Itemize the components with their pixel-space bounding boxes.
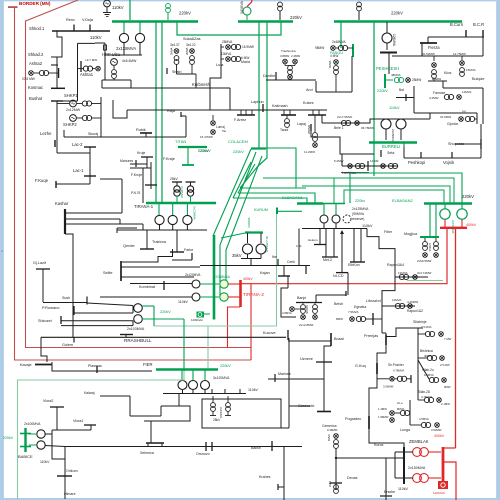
wire green x184 to FIER — [183, 319, 185, 371]
svg-text:2MVA: 2MVA — [170, 47, 174, 55]
svg-text:Vlora1: Vlora1 — [73, 419, 83, 423]
svg-text:Sh.Poshter: Sh.Poshter — [388, 363, 405, 367]
svg-text:35kV: 35kV — [232, 253, 242, 258]
svg-text:Kukes: Kukes — [303, 101, 314, 105]
transformer 2x128MVA a — [123, 22, 125, 33]
svg-text:0.84: 0.84 — [296, 244, 302, 248]
node Traktora — [176, 230, 178, 252]
svg-text:Kucove: Kucove — [263, 331, 276, 335]
svg-text:Himare: Himare — [64, 492, 76, 496]
svg-text:220kV: 220kV — [160, 310, 171, 314]
svg-text:110kV: 110kV — [40, 460, 50, 464]
wire SHKP east — [100, 97, 102, 137]
svg-text:Selenica: Selenica — [140, 451, 154, 455]
wire Mogjica drops — [429, 204, 431, 236]
bus TIRANA-2 end — [213, 318, 216, 320]
wire peshkopi west end — [403, 147, 405, 158]
svg-text:3x120MVA: 3x120MVA — [213, 376, 230, 380]
wire Kruje area — [146, 157, 148, 168]
wire 220kV feeder x341 to FANGU — [340, 22, 342, 48]
wire Erseke spine — [385, 458, 387, 500]
svg-text:2x128MVA: 2x128MVA — [116, 46, 136, 51]
svg-text:Manures: Manures — [120, 159, 133, 163]
wire 400kV Tirana2-Elbasan2 — [241, 228, 447, 284]
node Krahes — [277, 484, 279, 490]
svg-text:1.4MW: 1.4MW — [378, 407, 387, 411]
wire Burrel 110 line — [376, 118, 430, 120]
node Denas — [330, 482, 342, 484]
svg-text:Kombinat: Kombinat — [139, 285, 156, 289]
svg-text:2x12MW: 2x12MW — [66, 108, 81, 112]
svg-text:F: F — [2, 249, 4, 253]
svg-text:TITAN: TITAN — [175, 139, 186, 144]
wire babice ticks — [20, 433, 31, 435]
svg-text:110kV: 110kV — [248, 388, 259, 392]
svg-text:Krahes: Krahes — [259, 475, 271, 479]
node ElbKon — [353, 229, 355, 262]
wire 220kV fan-to-east 1 — [240, 166, 258, 188]
wire 35kV join — [241, 258, 261, 260]
svg-text:Orikum: Orikum — [66, 469, 78, 473]
svg-text:F.Kraje: F.Kraje — [163, 157, 175, 161]
bus ELBASAN1 — [297, 202, 323, 205]
wire Bele-Burrel jog — [366, 119, 376, 123]
wire red link tap west — [228, 307, 241, 348]
wire cemerica spine — [335, 448, 337, 490]
svg-text:2x100MVA: 2x100MVA — [24, 422, 41, 426]
transformer E2 400 b — [461, 204, 463, 209]
wire zemblak south exit — [443, 462, 456, 500]
node B.C.R — [482, 30, 484, 37]
wire seafoam to FIER — [207, 326, 209, 368]
wire green drop x130 — [129, 0, 131, 20]
node Met.2 — [325, 229, 327, 257]
svg-text:28MW: 28MW — [412, 78, 421, 82]
svg-text:20.5 MW: 20.5 MW — [22, 77, 35, 81]
wire balish-krahes — [275, 446, 302, 448]
svg-text:2x17.5MVA: 2x17.5MVA — [337, 115, 352, 119]
bus Shkod.1 — [52, 30, 110, 32]
svg-text:Denas: Denas — [347, 476, 358, 480]
wire fan-to-y198 — [233, 162, 251, 198]
plant Fier TPP box — [202, 399, 281, 428]
bus ZEMBLAK 400kV — [442, 447, 445, 484]
svg-text:Klos: Klos — [444, 71, 451, 75]
svg-text:110kV: 110kV — [112, 5, 124, 10]
bus Mogjica — [420, 236, 439, 238]
svg-text:Shkad.2: Shkad.2 — [28, 52, 44, 57]
node V.Deja — [89, 25, 91, 32]
svg-text:2x128MVA: 2x128MVA — [193, 206, 197, 220]
page frame left blue strip — [0, 0, 3, 500]
wire Fiber line — [367, 229, 395, 307]
svg-text:Vlora2: Vlora2 — [43, 399, 53, 403]
svg-text:Bushat: Bushat — [29, 96, 43, 101]
transformer E1 b — [335, 204, 337, 215]
transformer RRASHBULL a — [134, 304, 143, 313]
bus Pogradec — [368, 416, 370, 429]
svg-text:7.5MVA: 7.5MVA — [348, 310, 358, 314]
svg-text:Shkod.1: Shkod.1 — [29, 26, 45, 31]
svg-text:16.9MW: 16.9MW — [242, 45, 254, 49]
svg-text:Kajan: Kajan — [260, 271, 270, 275]
svg-text:3.8MW: 3.8MW — [280, 54, 289, 58]
generator Burrel b — [396, 119, 406, 129]
svg-text:220kV: 220kV — [179, 11, 191, 16]
wire fan-to-y193 — [238, 164, 255, 193]
bus Bosat — [330, 333, 332, 346]
node NI-CD — [341, 234, 343, 273]
wire Vlora2 — [56, 407, 58, 430]
wire Kashar feeders — [65, 212, 122, 214]
svg-text:Rubik: Rubik — [136, 128, 146, 132]
page frame bottom edge — [0, 498, 500, 500]
node Vojnik — [451, 152, 453, 158]
svg-text:Egnatia: Egnatia — [354, 305, 366, 309]
node Peshkopi — [420, 152, 422, 158]
node Raja — [180, 112, 182, 117]
transformer E1 a — [323, 204, 325, 215]
svg-text:Plasmas: Plasmas — [88, 364, 102, 368]
svg-text:Sllab-2D: Sllab-2D — [418, 390, 431, 394]
svg-text:SHKP1: SHKP1 — [64, 93, 78, 98]
node Kucove — [287, 330, 289, 340]
wire Kukes east — [321, 115, 323, 123]
svg-text:F.Kuqe: F.Kuqe — [35, 178, 49, 183]
svg-text:Laphun: Laphun — [251, 100, 264, 104]
svg-text:Bosat: Bosat — [334, 337, 345, 341]
svg-text:(90MVA: (90MVA — [352, 212, 365, 216]
svg-text:Sllab-2u: Sllab-2u — [422, 368, 434, 372]
wire Burrel-Bulqize — [413, 86, 415, 113]
node G.Kuq — [376, 363, 378, 374]
svg-text:340MVA: 340MVA — [240, 1, 244, 14]
svg-text:2x24MVA: 2x24MVA — [219, 407, 223, 418]
svg-text:4.8MVA: 4.8MVA — [282, 311, 292, 315]
wire Marinez lines — [268, 378, 324, 380]
plant Lumaj — [212, 115, 214, 120]
svg-text:Mogjica: Mogjica — [404, 232, 418, 236]
wire Kurbnesh-Kalimash line — [127, 109, 327, 111]
bus FIER — [156, 368, 218, 370]
svg-text:110kV: 110kV — [362, 224, 373, 228]
wire zemblak west stubs — [395, 451, 404, 453]
bus Fierza — [427, 37, 429, 43]
svg-text:Bat: Bat — [399, 88, 404, 92]
wire border red diagonal + vertical 2 — [26, 0, 252, 348]
wire burrel tap — [403, 143, 405, 147]
svg-text:Lezhe: Lezhe — [40, 131, 52, 136]
wire hpp link — [104, 55, 106, 80]
svg-text:3.06MW: 3.06MW — [383, 385, 394, 389]
generator 340MVA synchronous condenser — [243, 7, 251, 15]
wire Selite-Ibe line — [200, 265, 310, 267]
wire zemblak top link — [443, 447, 456, 449]
svg-text:98MW: 98MW — [315, 46, 324, 50]
svg-text:P.Romano: P.Romano — [42, 306, 59, 310]
wire 220kV fan line 2 — [220, 152, 256, 297]
svg-text:Kashar: Kashar — [55, 201, 69, 206]
svg-text:Balish: Balish — [251, 446, 261, 450]
svg-text:Gjorice: Gjorice — [447, 122, 458, 126]
plant Lapaj tx — [313, 133, 318, 138]
svg-text:Vojnik: Vojnik — [443, 160, 455, 165]
svg-text:p-p: p-p — [462, 109, 466, 113]
bus TIRANA-1 — [146, 202, 216, 204]
wire traktora south — [122, 249, 173, 262]
wire 220kV tie y35 — [177, 22, 281, 35]
svg-text:Tarzd: Tarzd — [280, 128, 288, 132]
bus Kashar — [64, 209, 66, 234]
wire to Ami — [315, 81, 317, 92]
svg-text:Ashta2: Ashta2 — [29, 61, 43, 66]
svg-text:9MW: 9MW — [444, 385, 451, 389]
svg-text:7 MW: 7 MW — [444, 337, 452, 341]
wire B.Curri line — [428, 36, 484, 38]
svg-text:Famose: Famose — [433, 91, 445, 95]
svg-text:Farke: Farke — [184, 248, 193, 252]
wire 400kV to Zemblak — [455, 229, 457, 448]
svg-text:Rapun3&4: Rapun3&4 — [387, 263, 404, 267]
svg-text:Peshkopi: Peshkopi — [408, 160, 425, 165]
transformer T-1 b — [172, 204, 174, 215]
svg-text:400kV: 400kV — [243, 277, 253, 281]
node Farke — [191, 253, 193, 260]
wire 110kV line y88 — [102, 87, 230, 89]
generator HPP Ulza — [111, 59, 118, 66]
wire balish line — [65, 446, 275, 448]
svg-text:Met.2: Met.2 — [323, 258, 332, 262]
svg-text:318MVA: 318MVA — [247, 217, 251, 228]
svg-text:SHKP2: SHKP2 — [63, 122, 77, 127]
wire Danthe line — [266, 79, 316, 81]
wire 220kV corridor y186 — [302, 186, 450, 203]
svg-text:Kalaraj: Kalaraj — [84, 391, 95, 395]
plant Fier units a — [211, 403, 216, 408]
svg-text:Skuraj: Skuraj — [88, 132, 98, 136]
node Shuperze — [455, 143, 481, 145]
wire Kucove line — [41, 336, 286, 338]
wire red stubs TR2 — [228, 283, 240, 285]
wire 35kV bus link — [221, 233, 245, 238]
svg-text:6MVA: 6MVA — [328, 60, 332, 68]
svg-text:110kV: 110kV — [90, 35, 102, 40]
transformer FIER c — [204, 370, 206, 380]
plant Fier units b — [226, 403, 231, 408]
generator SHKP2 — [70, 115, 77, 122]
transformer ZEMBLAK a — [413, 448, 422, 457]
svg-text:2x120MVA: 2x120MVA — [185, 273, 201, 277]
svg-text:11.2MW: 11.2MW — [304, 150, 315, 154]
transformer Dardhe — [283, 59, 288, 64]
plant 11MVA Rapun1&2 — [382, 305, 415, 307]
wire 220kV corridor y188w — [240, 187, 306, 189]
wire Kombinat lines — [130, 283, 192, 285]
wire Kukes-Lashkiza — [311, 131, 374, 154]
wire Fangu-Ami — [351, 56, 353, 57]
wire Bosat south — [324, 346, 331, 412]
svg-text:Kurbnesh: Kurbnesh — [192, 82, 211, 87]
svg-text:Marinez: Marinez — [278, 372, 291, 376]
svg-text:2.1MW: 2.1MW — [441, 402, 450, 406]
svg-text:2c,e: 2c,e — [397, 401, 403, 405]
bus 220kV Komani (green) — [238, 20, 293, 22]
wire peshgesh down — [388, 53, 390, 74]
node Kombinat — [163, 281, 165, 290]
svg-text:Librazhd: Librazhd — [366, 299, 381, 303]
svg-text:7.5 MVA: 7.5 MVA — [421, 325, 432, 329]
svg-text:10MVA: 10MVA — [428, 243, 432, 252]
wire Ashta1 link — [77, 43, 79, 101]
svg-text:3x3.74MW: 3x3.74MW — [417, 271, 432, 275]
svg-text:15MVA: 15MVA — [466, 68, 476, 72]
transformer E1 reserve — [343, 215, 351, 223]
transformer TR2 110 a — [192, 280, 200, 288]
wire Kavaje chain — [41, 337, 47, 362]
generator Burrel a — [381, 119, 391, 129]
svg-text:Ami: Ami — [306, 88, 313, 92]
svg-text:TIRANA-2: TIRANA-2 — [243, 292, 264, 297]
svg-text:COLACEM: COLACEM — [228, 139, 248, 144]
wire Kucove-Bosat — [288, 340, 331, 342]
svg-text:110kV: 110kV — [398, 487, 409, 491]
transformer E2 400 a — [444, 204, 446, 209]
svg-text:Luta: Luta — [216, 63, 224, 67]
svg-text:4.5MVA: 4.5MVA — [419, 417, 429, 421]
bus 35kV — [245, 231, 263, 233]
plant Banja — [290, 307, 295, 312]
node Orikum — [57, 475, 72, 477]
transformer RRASHBULL b — [134, 315, 143, 324]
svg-text:12.75MW: 12.75MW — [453, 52, 466, 56]
transformer TR2 110 b — [192, 293, 200, 301]
svg-text:TIRANA-1: TIRANA-1 — [134, 204, 154, 209]
transformer T3 on bus C — [357, 2, 362, 7]
svg-text:220kV: 220kV — [377, 89, 388, 93]
bus COLACEM — [251, 147, 266, 149]
bus Prrenjas — [385, 335, 387, 345]
svg-text:reserve): reserve) — [352, 217, 364, 221]
bus Kavaje — [35, 364, 52, 366]
svg-text:Renc: Renc — [66, 18, 75, 22]
svg-text:Prrenjas: Prrenjas — [364, 334, 378, 338]
node Shkozet — [60, 316, 62, 324]
node KURUM — [276, 208, 278, 215]
page frame right blue strip — [497, 0, 500, 500]
svg-text:220kV: 220kV — [200, 149, 211, 153]
svg-text:Erseke: Erseke — [384, 490, 395, 494]
wire Elbasan 110 line — [302, 228, 367, 230]
wire Banja line — [296, 302, 322, 304]
transformer Babice b — [29, 444, 36, 446]
svg-text:Ibe: Ibe — [272, 255, 277, 259]
svg-text:Fiber: Fiber — [384, 230, 393, 234]
svg-text:28MVA: 28MVA — [222, 40, 233, 44]
node Lezhe — [54, 140, 56, 147]
transformer TR2 400 b — [220, 293, 228, 301]
wire Ibe-Elbasan — [298, 229, 300, 266]
svg-text:P.N.76: P.N.76 — [131, 191, 141, 195]
svg-text:Danu: Danu — [432, 77, 441, 81]
node Balish — [271, 441, 273, 451]
wire GKuq spine — [369, 345, 386, 440]
svg-text:3x4.37: 3x4.37 — [170, 43, 180, 47]
node Lapaj — [310, 124, 312, 131]
bus ELBASAN2 400kV — [440, 227, 467, 229]
svg-text:15.47MW: 15.47MW — [200, 135, 213, 139]
transformer FIER a — [181, 370, 183, 380]
svg-text:Pogradec: Pogradec — [345, 417, 361, 421]
svg-text:3x4.22: 3x4.22 — [186, 43, 196, 47]
svg-text:1/5MVA: 1/5MVA — [424, 373, 434, 377]
transformer 35kV b — [260, 233, 262, 243]
svg-text:128MVA: 128MVA — [392, 34, 396, 47]
svg-text:48MVA: 48MVA — [391, 73, 401, 77]
wire Lac chain — [57, 152, 90, 154]
wire rrashbull stub joins — [132, 306, 134, 314]
wire red link TIRANA-2 taps — [250, 284, 252, 360]
svg-text:ELBASAN1: ELBASAN1 — [282, 195, 303, 200]
bus FANGU tick — [352, 44, 354, 57]
bus Rubik — [140, 132, 152, 134]
svg-text:2x150MVA: 2x150MVA — [408, 466, 426, 470]
bus BURRELI 220kV — [369, 141, 417, 143]
svg-text:ELBASAN2: ELBASAN2 — [392, 198, 413, 203]
svg-text:FANGU: FANGU — [330, 51, 343, 55]
transformer T-1 a — [158, 204, 160, 215]
svg-text:400kV: 400kV — [434, 434, 445, 438]
label 28MW — [406, 78, 411, 83]
wire Kashar south — [65, 234, 73, 337]
svg-text:4.29MW: 4.29MW — [407, 300, 418, 304]
svg-text:2X398MVA: 2X398MVA — [214, 275, 231, 279]
wire Belsh line — [316, 294, 346, 296]
svg-text:PESHGESH: PESHGESH — [376, 66, 399, 71]
wire green stubs TR2 — [200, 283, 219, 285]
svg-text:Lac-2: Lac-2 — [72, 142, 83, 147]
svg-text:28MVA: 28MVA — [307, 125, 311, 134]
wire Kalaraj — [100, 395, 130, 397]
wire staircase — [113, 100, 127, 118]
wire 220kV corridor y193w — [238, 193, 315, 203]
reactor 1200kVar — [197, 312, 205, 318]
svg-text:Uzneve: Uzneve — [300, 357, 313, 361]
node Seta — [380, 150, 382, 157]
node P.Romano — [73, 306, 75, 315]
node Qerder — [146, 230, 148, 249]
transformer Mogjica b — [434, 242, 439, 247]
svg-text:Ashta1: Ashta1 — [80, 72, 94, 77]
svg-text:220kV: 220kV — [462, 194, 474, 199]
wire G.Lazit — [36, 268, 50, 270]
transformer Ashta1 — [80, 61, 82, 72]
transformer TR2 400 a — [220, 280, 228, 288]
svg-text:NI-CD: NI-CD — [333, 274, 344, 278]
bus Lac-2 — [84, 146, 96, 148]
svg-text:2x125MVA: 2x125MVA — [352, 207, 369, 211]
svg-text:2x65MVA: 2x65MVA — [391, 129, 395, 142]
wire rubik west — [63, 130, 65, 137]
node Golem — [120, 334, 133, 336]
plant Tarzd — [286, 115, 288, 118]
svg-text:Bulqize: Bulqize — [472, 77, 484, 81]
svg-text:BURRELI: BURRELI — [382, 144, 400, 149]
svg-text:Orsnovo: Orsnovo — [196, 452, 210, 456]
svg-text:3.52MW: 3.52MW — [431, 428, 442, 432]
wire 220kV corridor y178 — [263, 178, 454, 203]
wire Orikum spine — [64, 447, 66, 500]
bus TIRANA-2 220 vertical — [213, 235, 216, 318]
